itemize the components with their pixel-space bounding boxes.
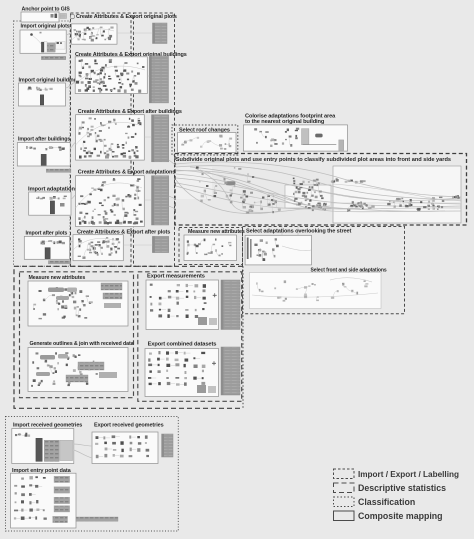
wire c1 to panel1: [117, 32, 153, 34]
subdivide band2: [347, 204, 375, 211]
group create attributes column: [71, 13, 132, 266]
export received nodes: [95, 435, 149, 458]
subdivide left cluster: [199, 167, 251, 203]
create after plots sweep: [73, 238, 118, 250]
create after buildings sweep: [76, 122, 142, 145]
wire subdivide to select adaptations 2: [297, 225, 299, 235]
anchor point box: [21, 12, 59, 22]
c4 bottom row: [79, 221, 143, 225]
svg-text:Generate outlines & join with: Generate outlines & join with received d…: [30, 341, 134, 347]
svg-text:Select adaptations overlooking: Select adaptations overlooking the stree…: [246, 229, 352, 235]
generate blobs: [66, 362, 117, 382]
subdivide wire bundle 8: [176, 162, 461, 197]
subdivide left dark dots: [196, 167, 273, 202]
svg-text:Create Attributes & Export aft: Create Attributes & Export after buildin…: [78, 109, 182, 115]
wire i1 to c1: [66, 33, 71, 35]
wire panels to subdivide 3: [169, 206, 176, 209]
subdivide wire bundle 1: [176, 170, 461, 209]
panel export combined: [221, 347, 240, 395]
create attributes export original plots box: [71, 24, 117, 44]
subdivide small white box: [285, 185, 331, 208]
export measurements blocks: [198, 317, 217, 325]
import original plots box: [20, 30, 66, 53]
wire i5 to c5: [70, 241, 73, 243]
export measurements plus: [213, 293, 217, 297]
measure big nodes: [33, 287, 93, 319]
svg-text:Anchor point to GIS: Anchor point to GIS: [22, 7, 71, 13]
wire i2 to c2: [66, 82, 76, 88]
c2 bottom row: [78, 89, 141, 93]
generate capsules: [36, 354, 68, 376]
export measurements box: [146, 280, 219, 330]
anchor icons: [51, 14, 75, 19]
svg-text:Export combined datasets: Export combined datasets: [148, 341, 217, 347]
svg-text:Classification: Classification: [358, 497, 415, 507]
import after plots box: [24, 236, 69, 259]
create original plots nodes: [74, 27, 114, 42]
svg-text:Export received geometries: Export received geometries: [94, 423, 164, 429]
svg-text:Export measurements: Export measurements: [147, 273, 205, 279]
generate outlines box: [28, 348, 128, 392]
import original plots strip: [41, 56, 65, 60]
subdivide braid 1: [176, 171, 461, 204]
svg-text:Create Attributes & Export ada: Create Attributes & Export adaptations: [78, 170, 175, 176]
wire import to export received 2: [74, 450, 92, 458]
import after buildings strip: [46, 169, 71, 172]
select roof changes nodes: [181, 135, 232, 150]
import received box: [12, 429, 74, 464]
wire colorise to subdivide: [299, 151, 301, 156]
import entry nodes: [14, 476, 47, 520]
subdivide braid 3: [176, 183, 445, 211]
select roof changes box: [178, 133, 237, 153]
select front side wires: [252, 293, 378, 297]
wire c5 to panel5: [123, 244, 152, 246]
import original buildings box: [18, 83, 65, 106]
import original plots preview: [44, 42, 47, 53]
subdivide big white box: [333, 166, 461, 223]
create adaptations nodes: [78, 178, 141, 225]
wire panels to subdivide 2: [169, 196, 176, 199]
panel original plots: [153, 23, 168, 44]
svg-text:Measure new attributes: Measure new attributes: [188, 229, 245, 235]
create original plots sweep: [71, 29, 114, 40]
subdivide right cluster3: [351, 201, 368, 206]
subdivide right cluster2: [416, 197, 444, 211]
create attributes export adaptations box: [76, 176, 145, 227]
create original buildings nodes: [79, 59, 145, 92]
group measure generate inner: [20, 272, 134, 398]
panel after plots: [152, 236, 168, 252]
subdivide wire bundle 9: [200, 170, 300, 203]
import adaptations node right: [60, 203, 65, 207]
wire i3 to c3: [70, 142, 75, 148]
svg-text:Import original plots: Import original plots: [21, 24, 70, 30]
svg-text:Import original buildings: Import original buildings: [19, 78, 80, 84]
import original buildings bar: [40, 95, 44, 105]
colorise adaptations box: [243, 125, 347, 151]
svg-text:Import after plots: Import after plots: [26, 231, 68, 237]
wire subdivide to select adaptations 1: [281, 225, 283, 235]
measure big capsules: [48, 288, 77, 301]
subdivide wire bundle 5: [176, 180, 280, 214]
import after plots nodes: [41, 240, 66, 244]
subdivide band cluster: [331, 178, 366, 183]
import original plots panel bar: [41, 42, 43, 52]
panel after buildings: [152, 115, 169, 162]
subdivide wire bundle 3: [176, 166, 461, 200]
measure small box: [184, 235, 237, 261]
panel original buildings: [149, 56, 168, 103]
subdivide lower mid2 cluster: [305, 203, 327, 212]
group import column: [14, 21, 71, 266]
group subdivide plots: [175, 154, 467, 226]
group export panels column: [134, 13, 175, 266]
svg-text:Import received geometries: Import received geometries: [13, 423, 82, 429]
subdivide wire bundle 6: [331, 196, 460, 203]
subdivide capsule: [226, 181, 236, 185]
group measure new attributes small: [179, 228, 243, 265]
legend swatch descriptive statistics: [334, 483, 355, 493]
subdivide wire bundle 4: [195, 168, 330, 212]
wire i4 to c4: [71, 195, 76, 199]
entry strips: [53, 476, 70, 522]
create attributes export original buildings box: [75, 57, 147, 94]
create adaptations sweep: [76, 183, 142, 208]
svg-text:Subdivide original plots and u: Subdivide original plots and use entry p…: [176, 157, 451, 163]
legend swatch classification: [334, 497, 355, 507]
import received blob: [44, 440, 59, 461]
export received box: [92, 432, 158, 464]
measure big box: [28, 281, 128, 326]
import after plots bar: [45, 248, 50, 259]
wire c3 to panel3: [144, 136, 151, 138]
measure big blobs: [101, 283, 122, 308]
group select roof changes: [172, 125, 238, 155]
subdivide braid 4: [190, 167, 461, 201]
generate outlines nodes: [31, 352, 98, 387]
measure small nodes: [187, 239, 232, 257]
group export inner: [138, 272, 242, 402]
wire c2 to panel2: [147, 75, 149, 77]
import after plots strip: [48, 261, 71, 264]
colorise capsule: [315, 134, 322, 138]
panel export received: [162, 434, 173, 457]
select adaptations nodes: [254, 238, 278, 261]
export combined nodes: [148, 351, 205, 386]
svg-text:Descriptive statistics: Descriptive statistics: [358, 483, 446, 493]
import after buildings box: [17, 143, 70, 166]
wire import to export received: [74, 444, 92, 446]
import original buildings nodes: [28, 87, 53, 91]
legend swatch import export labelling: [334, 469, 355, 479]
panel export measurements: [221, 280, 240, 330]
svg-text:Measure new attributes: Measure new attributes: [29, 275, 86, 281]
export combined box: [145, 349, 219, 397]
import entry point box: [11, 473, 77, 528]
colorise right bar: [339, 140, 344, 151]
subdivide far right pair: [452, 195, 460, 199]
wire c4 to panel4: [144, 199, 151, 201]
group received data: [6, 417, 179, 532]
subdivide wire bundle 10: [333, 184, 461, 201]
svg-text:Import / Export / Labelling: Import / Export / Labelling: [358, 470, 459, 479]
legend swatch composite mapping: [334, 511, 355, 521]
create attributes export after buildings box: [76, 115, 145, 160]
colorise long wire: [303, 144, 337, 146]
import received bar: [36, 438, 42, 461]
select front side box: [250, 273, 382, 309]
colorise nodes: [254, 128, 299, 147]
svg-text:Composite mapping: Composite mapping: [358, 511, 443, 521]
select front side wires2: [330, 278, 372, 282]
svg-text:to the nearest original buildi: to the nearest original building: [245, 119, 325, 125]
select adaptations vertical bars: [247, 238, 249, 260]
subdivide wire bundle 7: [176, 186, 360, 209]
svg-text:Import after buildings: Import after buildings: [18, 137, 70, 143]
export combined blocks: [197, 385, 216, 393]
svg-text:Create Attributes & Export ori: Create Attributes & Export original plot…: [76, 14, 177, 20]
svg-text:Import adaptations: Import adaptations: [28, 187, 78, 193]
create original buildings sweep: [75, 66, 145, 84]
subdivide mid cluster: [293, 178, 324, 206]
create after plots nodes: [78, 237, 121, 259]
long bottom strip: [76, 517, 118, 521]
colorise gray bar: [302, 129, 309, 145]
export measurements nodes: [150, 284, 207, 318]
import received nodes: [15, 433, 30, 437]
import adaptations box: [29, 192, 71, 215]
group select adaptations: [243, 227, 405, 314]
subdivide left light patch: [176, 167, 212, 199]
import after buildings bar: [41, 154, 46, 165]
wire panels to subdivide 1: [169, 160, 176, 166]
select adaptations wires: [282, 246, 311, 251]
c3 bottom row: [79, 155, 139, 159]
panel adaptations: [152, 176, 169, 225]
subdivide wire bundle 2: [176, 174, 461, 212]
export combined plus: [212, 361, 216, 365]
group lower outer: [14, 266, 243, 408]
select front side nodes: [256, 280, 368, 301]
select adaptations box: [245, 235, 311, 265]
create after buildings nodes: [78, 117, 141, 158]
import after buildings nodes: [26, 146, 65, 151]
subdivide right cluster1: [387, 198, 412, 208]
subdivide braid 2: [176, 178, 461, 206]
c2 mid row: [76, 81, 97, 84]
import original plots dot: [30, 33, 33, 36]
import adaptations nodes: [36, 196, 67, 200]
create attributes export after plots box: [73, 235, 123, 261]
subdivide lower mid cluster: [242, 190, 281, 213]
import adaptations bar: [50, 201, 54, 214]
import original plots wire: [33, 36, 42, 45]
